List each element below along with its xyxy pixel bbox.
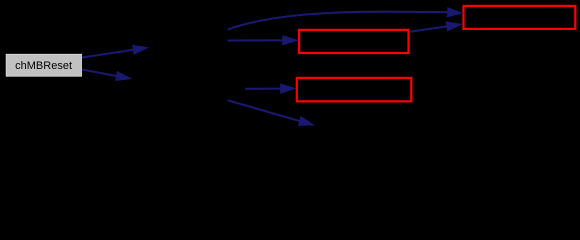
edge chMBReset->nodeB — [82, 70, 131, 81]
node box3 (red-bordered, lower) — [297, 78, 412, 101]
edge nodeB->box3 — [245, 84, 295, 93]
edge nodeA->box1 (long arc over box2) — [228, 8, 463, 30]
svg-text:chMBReset: chMBReset — [15, 60, 72, 72]
node box2 (red-bordered, middle) — [299, 30, 408, 53]
edge nodeB->bottom node — [228, 100, 314, 125]
node box1 (red-bordered, top right) — [464, 6, 576, 29]
node chMBReset (grey filled box) — [6, 54, 81, 76]
edge box2->box1 — [410, 22, 462, 32]
edge nodeA->box2 — [228, 36, 298, 45]
edge chMBReset->nodeA — [82, 45, 148, 57]
